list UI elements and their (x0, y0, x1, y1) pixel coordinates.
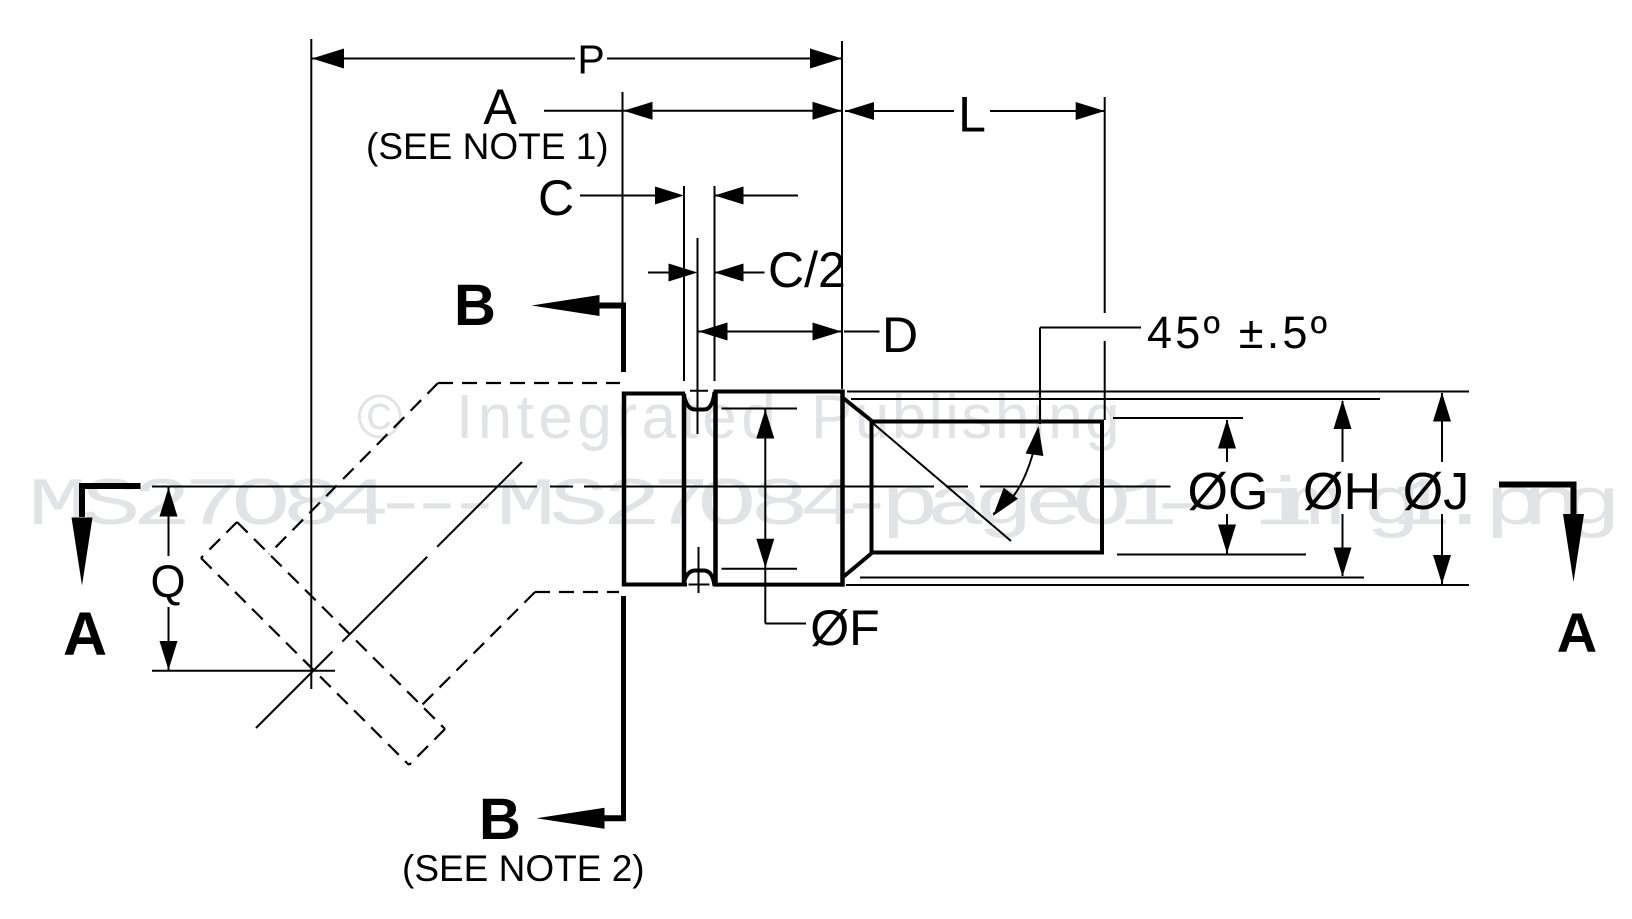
OG extension lines (1113, 417, 1243, 419)
watermark: copyright Integrated Publishing (357, 383, 1122, 452)
extension line at plate center (P left) (310, 39, 312, 689)
phantom plate lower end cap (409, 729, 445, 765)
section B-B marker bottom (599, 815, 626, 821)
phantom bracket lower flange edge (535, 591, 619, 593)
dimension 45deg leader (1040, 327, 1141, 329)
OH extension lines (851, 398, 1380, 400)
centerline (part axis) (152, 486, 537, 488)
groove center extension line x=697.5 (697, 238, 699, 434)
groove top center tick (690, 390, 708, 392)
dimension Q line (168, 487, 170, 556)
dimension OJ line (1441, 393, 1443, 462)
part flange top edge (622, 392, 685, 396)
part body bottom edge (714, 583, 844, 587)
svg-text:(SEE NOTE 1): (SEE NOTE 1) (366, 126, 609, 167)
45-degree chamfer reference diagonal (872, 423, 1011, 542)
svg-text:(SEE NOTE 2): (SEE NOTE 2) (402, 848, 645, 889)
extension line at flange front face x=622.5 (622, 92, 624, 304)
svg-text:C: C (538, 170, 574, 226)
dimension C line and arrows (580, 195, 655, 197)
extension line at stud tip x=1105 (1104, 97, 1106, 313)
stud end face edge (1100, 420, 1104, 555)
svg-text:B: B (454, 273, 496, 338)
dimension P line (312, 58, 575, 60)
extension line groove right x=714.5 (714, 186, 716, 381)
groove bottom center cross tick (689, 584, 710, 586)
part flange rear face edge (682, 394, 687, 585)
phantom bracket lower 45-deg bend line (421, 592, 535, 706)
svg-text:ØG: ØG (1188, 463, 1269, 521)
dimension 45deg arc (993, 429, 1039, 514)
part body right face edge (840, 390, 845, 587)
taper bottom edge (843, 553, 873, 578)
dimension D line (699, 331, 842, 333)
dimension OF line (764, 409, 766, 624)
groove bottom arc (684, 571, 715, 587)
phantom bracket upper 45-deg bend line (269, 383, 438, 554)
taper top edge (843, 398, 873, 422)
dimension L line (845, 110, 954, 112)
section A-A marker right (1499, 485, 1574, 518)
groove bottom center cross vertical (698, 547, 700, 593)
svg-text:C/2: C/2 (768, 242, 846, 298)
svg-text:MS27O84---MS27O84-pageO1--img1: MS27O84---MS27O84-pageO1--img1.png (28, 467, 1622, 544)
extension line groove left x=684 (683, 186, 685, 381)
part flange bottom edge (622, 583, 687, 587)
part hex/body left face edge (713, 392, 718, 585)
svg-text:A: A (1557, 601, 1597, 664)
Q bottom reference line (152, 670, 335, 672)
OJ extension lines (847, 391, 1469, 393)
svg-text:45º ±.5º: 45º ±.5º (1147, 307, 1330, 358)
groove top arc (684, 392, 715, 410)
dimension A line (544, 110, 842, 112)
dimension OG line (1226, 420, 1228, 462)
stud left face edge (870, 420, 874, 554)
dimension C/2 line and arrows (648, 272, 670, 274)
svg-text:ØF: ØF (810, 600, 879, 656)
phantom bracket top flange edge (438, 382, 620, 384)
stud bottom edge (870, 551, 1103, 555)
svg-text:L: L (958, 87, 986, 143)
part body top edge (714, 390, 844, 394)
extension line at part right face x=842 (841, 41, 843, 389)
dimension OH line (1342, 401, 1344, 462)
section B-B marker top (599, 303, 626, 309)
phantom plate upper surface (237, 522, 445, 729)
dimension OF ticks (722, 408, 798, 410)
svg-text:D: D (882, 307, 918, 363)
svg-text:P: P (577, 37, 604, 83)
svg-text:B: B (479, 787, 521, 852)
part flange front face edge (622, 392, 627, 587)
phantom plate lower surface (201, 558, 409, 765)
stud top edge (870, 420, 1103, 424)
plate axis diagonal line (256, 462, 522, 728)
watermark: filename MS27084 (28, 467, 1622, 544)
svg-text:Publishing: Publishing (811, 383, 1122, 452)
phantom plate upper end cap (201, 522, 237, 558)
svg-text:A: A (63, 600, 107, 668)
svg-text:Q: Q (150, 556, 185, 607)
section A-A marker left (82, 486, 141, 517)
svg-text:ØJ: ØJ (1403, 463, 1469, 521)
svg-text:ØH: ØH (1303, 463, 1381, 521)
